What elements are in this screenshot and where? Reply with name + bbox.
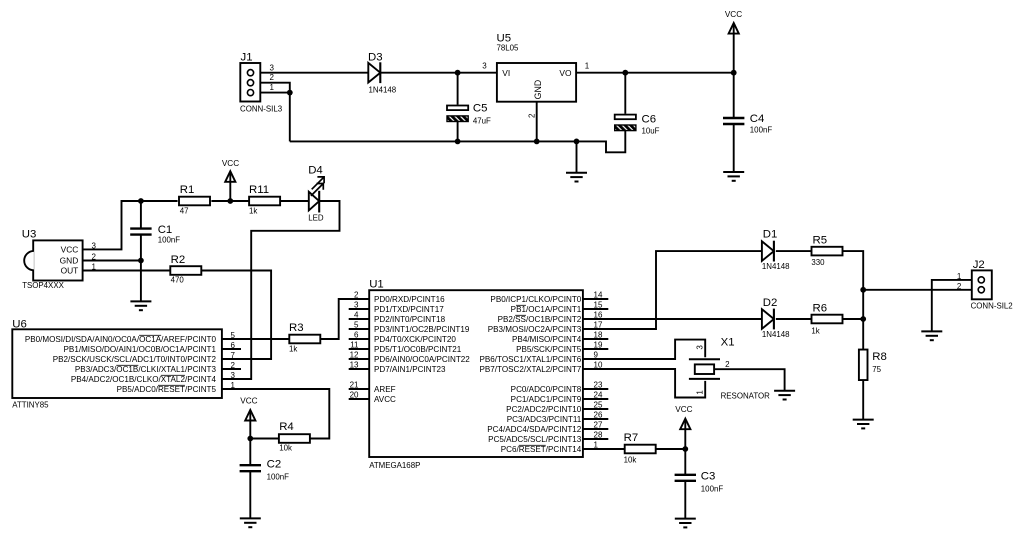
- svg-text:1: 1: [696, 390, 705, 395]
- svg-text:14: 14: [594, 290, 603, 299]
- svg-text:PC2/ADC2/PCINT10: PC2/ADC2/PCINT10: [506, 405, 582, 414]
- svg-text:R11: R11: [249, 184, 269, 196]
- svg-text:7: 7: [230, 351, 235, 360]
- svg-text:VCC: VCC: [240, 396, 257, 405]
- svg-text:D3: D3: [368, 52, 383, 64]
- svg-text:3: 3: [354, 300, 359, 309]
- svg-text:12: 12: [350, 350, 359, 359]
- svg-text:100nF: 100nF: [267, 473, 290, 482]
- svg-text:GND: GND: [533, 80, 543, 100]
- svg-text:1: 1: [230, 381, 235, 390]
- svg-text:3: 3: [696, 345, 705, 350]
- svg-text:PC6/RESET/PCINT14: PC6/RESET/PCINT14: [501, 445, 582, 454]
- svg-text:1N4148: 1N4148: [369, 85, 397, 94]
- svg-text:PB0/ICP1/CLKO/PCINT0: PB0/ICP1/CLKO/PCINT0: [490, 295, 581, 304]
- svg-text:PD4/T0/XCK/PCINT20: PD4/T0/XCK/PCINT20: [374, 335, 456, 344]
- svg-text:C2: C2: [267, 459, 282, 471]
- svg-text:20: 20: [350, 390, 359, 399]
- svg-text:10k: 10k: [624, 455, 637, 464]
- svg-text:PB5/SCK/PCINT5: PB5/SCK/PCINT5: [516, 345, 582, 354]
- svg-text:R5: R5: [813, 235, 828, 247]
- svg-text:1: 1: [269, 83, 274, 92]
- svg-text:U3: U3: [22, 228, 37, 240]
- svg-text:PB4/MISO/PCINT4: PB4/MISO/PCINT4: [512, 335, 582, 344]
- svg-text:VO: VO: [559, 68, 572, 78]
- svg-text:R7: R7: [624, 432, 639, 444]
- svg-text:PB1/OC1A/PCINT1: PB1/OC1A/PCINT1: [511, 305, 582, 314]
- svg-text:PB2/SCK/USCK/SCL/ADC1/T0/INT0/: PB2/SCK/USCK/SCL/ADC1/T0/INT0/PCINT2: [53, 355, 217, 364]
- svg-text:TSOP4XXX: TSOP4XXX: [22, 281, 64, 290]
- svg-text:U5: U5: [497, 33, 512, 45]
- svg-text:2: 2: [725, 360, 730, 369]
- svg-text:25: 25: [594, 400, 603, 409]
- svg-text:1k: 1k: [811, 327, 819, 336]
- svg-text:C6: C6: [642, 114, 657, 126]
- svg-text:RESONATOR: RESONATOR: [721, 391, 771, 400]
- svg-text:R4: R4: [279, 421, 294, 433]
- svg-text:28: 28: [594, 430, 603, 439]
- svg-text:OUT: OUT: [61, 265, 79, 275]
- svg-text:R1: R1: [180, 184, 195, 196]
- svg-text:VCC: VCC: [725, 10, 742, 19]
- svg-text:VCC: VCC: [222, 159, 239, 168]
- svg-text:C3: C3: [701, 471, 716, 483]
- svg-text:1k: 1k: [249, 206, 257, 215]
- svg-text:21: 21: [350, 380, 359, 389]
- svg-text:J2: J2: [973, 259, 985, 271]
- svg-text:3: 3: [230, 371, 235, 380]
- svg-text:18: 18: [594, 330, 603, 339]
- svg-text:PC4/ADC4/SDA/PCINT12: PC4/ADC4/SDA/PCINT12: [487, 425, 582, 434]
- svg-text:AVCC: AVCC: [374, 395, 396, 404]
- svg-text:CONN-SIL3: CONN-SIL3: [240, 104, 283, 113]
- svg-text:5: 5: [230, 331, 235, 340]
- svg-text:1N4148: 1N4148: [762, 330, 790, 339]
- svg-text:11: 11: [350, 340, 359, 349]
- svg-text:5: 5: [354, 320, 359, 329]
- svg-text:3: 3: [92, 241, 97, 250]
- svg-text:PB5/ADC0/RESET/PCINT5: PB5/ADC0/RESET/PCINT5: [117, 385, 217, 394]
- svg-text:19: 19: [594, 340, 603, 349]
- svg-text:470: 470: [171, 276, 185, 285]
- svg-text:PB3/MOSI/OC2A/PCINT3: PB3/MOSI/OC2A/PCINT3: [488, 325, 582, 334]
- svg-text:PB4/ADC2/OC1B/CLKO/XTAL2/PCINT: PB4/ADC2/OC1B/CLKO/XTAL2/PCINT4: [71, 375, 217, 384]
- svg-text:47uF: 47uF: [473, 117, 491, 126]
- svg-text:R8: R8: [872, 351, 887, 363]
- svg-text:75: 75: [872, 365, 881, 374]
- svg-text:2: 2: [528, 113, 537, 118]
- svg-text:1N4148: 1N4148: [762, 262, 790, 271]
- svg-text:R6: R6: [813, 303, 828, 315]
- svg-text:VI: VI: [502, 68, 510, 78]
- svg-text:PD2/INT0/PCINT18: PD2/INT0/PCINT18: [374, 315, 446, 324]
- svg-text:78L05: 78L05: [497, 44, 520, 53]
- svg-text:D4: D4: [308, 165, 323, 177]
- svg-text:24: 24: [594, 390, 603, 399]
- svg-text:VCC: VCC: [61, 244, 79, 254]
- svg-text:PC5/ADC5/SCL/PCINT13: PC5/ADC5/SCL/PCINT13: [488, 435, 582, 444]
- svg-text:PC0/ADC0/PCINT8: PC0/ADC0/PCINT8: [511, 385, 582, 394]
- svg-text:2: 2: [92, 253, 97, 262]
- svg-text:PD1/TXD/PCINT17: PD1/TXD/PCINT17: [374, 305, 444, 314]
- svg-text:PB3/ADC3/OC1B/CLKI/XTAL1/PCINT: PB3/ADC3/OC1B/CLKI/XTAL1/PCINT3: [75, 365, 217, 374]
- svg-text:PC1/ADC1/PCINT9: PC1/ADC1/PCINT9: [511, 395, 582, 404]
- svg-text:1: 1: [594, 440, 599, 449]
- svg-text:6: 6: [354, 330, 359, 339]
- svg-text:VCC: VCC: [675, 405, 692, 414]
- svg-text:330: 330: [811, 258, 825, 267]
- svg-text:LED: LED: [308, 214, 324, 223]
- svg-text:PD7/AIN1/PCINT23: PD7/AIN1/PCINT23: [374, 365, 446, 374]
- svg-text:PB2/SS/OC1B/PCINT2: PB2/SS/OC1B/PCINT2: [498, 315, 582, 324]
- svg-text:ATTINY85: ATTINY85: [12, 401, 49, 410]
- svg-text:R3: R3: [289, 322, 304, 334]
- svg-text:26: 26: [594, 410, 603, 419]
- svg-text:PC3/ADC3/PCINT11: PC3/ADC3/PCINT11: [507, 415, 582, 424]
- svg-text:AREF: AREF: [374, 385, 396, 394]
- svg-text:D1: D1: [763, 228, 778, 240]
- svg-text:2: 2: [354, 290, 359, 299]
- svg-text:9: 9: [594, 350, 599, 359]
- svg-text:1: 1: [585, 62, 590, 71]
- svg-text:CONN-SIL2: CONN-SIL2: [971, 302, 1013, 311]
- svg-text:PD0/RXD/PCINT16: PD0/RXD/PCINT16: [374, 295, 445, 304]
- svg-text:3: 3: [269, 63, 274, 72]
- svg-text:U6: U6: [12, 318, 27, 330]
- svg-text:1: 1: [957, 272, 962, 281]
- svg-text:17: 17: [594, 320, 603, 329]
- svg-text:PD3/INT1/OC2B/PCINT19: PD3/INT1/OC2B/PCINT19: [374, 325, 470, 334]
- svg-text:D2: D2: [763, 297, 778, 309]
- svg-text:R2: R2: [171, 254, 186, 266]
- svg-text:ATMEGA168P: ATMEGA168P: [369, 461, 420, 470]
- svg-text:2: 2: [230, 361, 235, 370]
- svg-text:C4: C4: [750, 113, 765, 125]
- svg-text:16: 16: [594, 310, 603, 319]
- svg-text:J1: J1: [241, 52, 253, 64]
- svg-text:PB0/MOSI/DI/SDA/AIN0/OC0A/OC1A: PB0/MOSI/DI/SDA/AIN0/OC0A/OC1A/AREF/PCIN…: [25, 335, 217, 344]
- svg-text:13: 13: [350, 360, 359, 369]
- svg-text:100nF: 100nF: [750, 126, 773, 135]
- svg-text:100nF: 100nF: [701, 484, 724, 493]
- svg-text:10uF: 10uF: [642, 126, 660, 135]
- svg-text:6: 6: [230, 341, 235, 350]
- svg-text:2: 2: [269, 73, 274, 82]
- svg-text:1: 1: [92, 263, 97, 272]
- svg-text:27: 27: [594, 420, 603, 429]
- svg-text:10k: 10k: [279, 444, 292, 453]
- svg-text:PB1/MISO/DO/AIN1/OC0B/OC1A/PCI: PB1/MISO/DO/AIN1/OC0B/OC1A/PCINT1: [64, 345, 217, 354]
- svg-text:4: 4: [354, 310, 359, 319]
- svg-text:2: 2: [957, 282, 962, 291]
- svg-text:PB6/TOSC1/XTAL1/PCINT6: PB6/TOSC1/XTAL1/PCINT6: [479, 355, 581, 364]
- svg-text:PD5/T1/OC0B/PCINT21: PD5/T1/OC0B/PCINT21: [374, 345, 462, 354]
- svg-text:C1: C1: [158, 224, 173, 236]
- svg-text:3: 3: [482, 62, 487, 71]
- svg-text:X1: X1: [721, 337, 735, 349]
- svg-text:PD6/AIN0/OC0A/PCINT22: PD6/AIN0/OC0A/PCINT22: [374, 355, 470, 364]
- svg-text:1k: 1k: [289, 345, 297, 354]
- svg-text:15: 15: [594, 300, 603, 309]
- svg-text:U1: U1: [369, 278, 384, 290]
- svg-text:47: 47: [180, 206, 189, 215]
- svg-text:PB7/TOSC2/XTAL2/PCINT7: PB7/TOSC2/XTAL2/PCINT7: [479, 365, 581, 374]
- svg-text:10: 10: [594, 360, 603, 369]
- svg-text:100nF: 100nF: [158, 236, 181, 245]
- svg-text:23: 23: [594, 380, 603, 389]
- svg-text:C5: C5: [473, 103, 488, 115]
- svg-text:GND: GND: [60, 255, 79, 265]
